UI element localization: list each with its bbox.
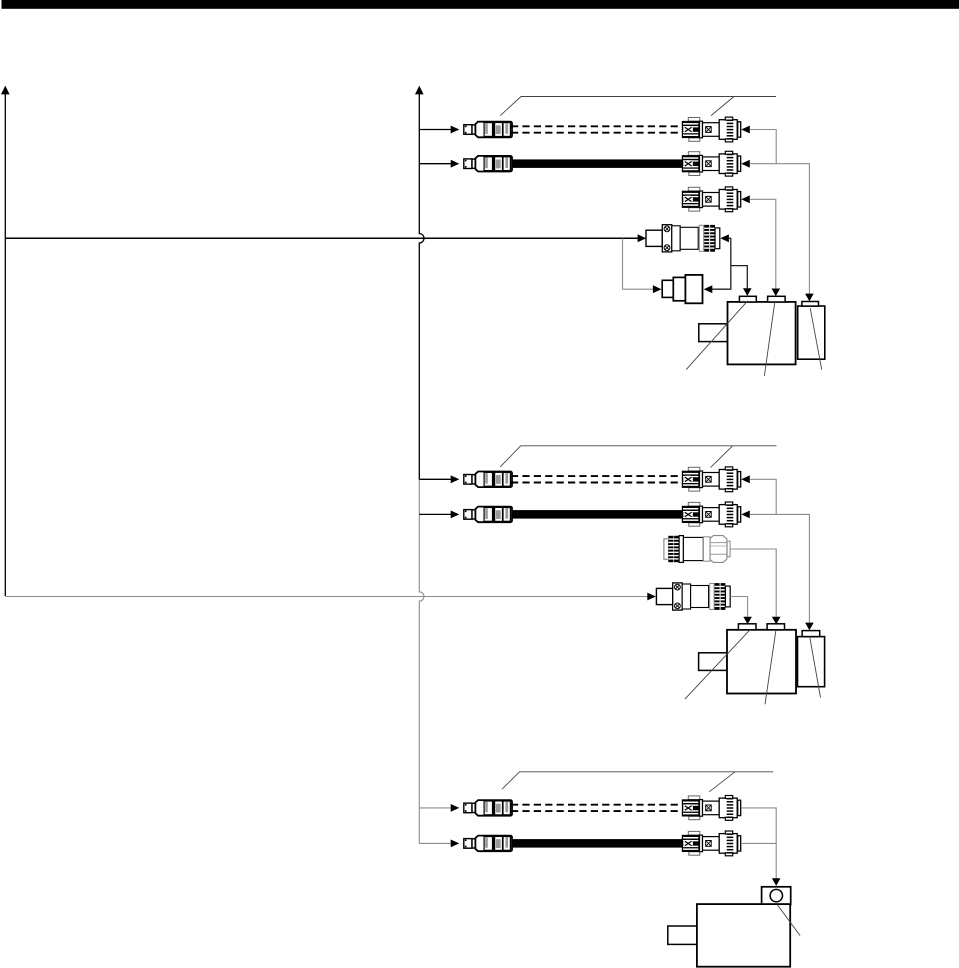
wire: row B to terminal 3	[741, 511, 814, 631]
cable: solid power cable group 3	[512, 839, 682, 848]
callout leader group 2	[500, 446, 776, 468]
motor 2 drawing	[699, 624, 825, 694]
connector round row 3	[682, 187, 741, 212]
cable: solid power cable row 2	[512, 159, 682, 168]
connector plug row B	[464, 507, 512, 523]
connector flange row 4	[646, 225, 720, 252]
connector plug row A	[464, 472, 512, 488]
wire: row 4 to terminal 1 and battery case	[704, 234, 752, 295]
wire: row 2 to encoder box group 3	[741, 843, 781, 886]
leader line motor 3	[777, 905, 800, 936]
connector round row 2	[682, 151, 741, 176]
connector plug row 1	[464, 122, 512, 138]
connector round row A	[682, 467, 741, 492]
connector plug row 2	[464, 156, 512, 172]
encoder connector box motor 3	[762, 887, 791, 905]
cable: solid power cable row B	[512, 510, 682, 518]
header black bar	[2, 0, 959, 9]
motor 3 drawing	[668, 904, 790, 967]
connector round row 1	[682, 117, 741, 142]
wire: row 3 to terminal 2	[741, 195, 780, 296]
connector plug row 2 group 3	[464, 836, 512, 852]
callout leader group 3	[502, 772, 773, 792]
wire: branch to battery-case connector group 1	[623, 238, 662, 293]
wire: branch arrow row 1 group 3	[419, 804, 459, 812]
connector flange row D	[656, 583, 730, 610]
wire: row 2 to terminal 3	[741, 160, 814, 301]
wire: horizontal feed line 1 (to flange connector group 1)	[5, 234, 646, 242]
wire: branch arrow row 2	[419, 160, 459, 168]
connector stepped battery case	[662, 275, 702, 303]
cable: dashed encoder cable row A	[511, 476, 683, 482]
cable: dashed encoder cable group 3	[511, 805, 683, 811]
leader lines motor 2	[685, 630, 821, 705]
wire: branch arrow row 1	[419, 126, 459, 134]
connector round row 2 group 3	[682, 831, 741, 856]
wire: branch arrow row B	[419, 511, 459, 519]
cable: dashed encoder cable row 1	[511, 126, 683, 132]
wire: row D to terminal 1	[730, 597, 752, 625]
connector round row B	[682, 502, 741, 527]
wire: branch arrow row 2 group 3	[419, 840, 459, 848]
wire: row 1 to row 2 join group 3	[741, 808, 776, 844]
callout leader group 1	[500, 97, 776, 116]
wire: row C to terminal 2	[730, 549, 780, 624]
connector plug row 1 group 3	[464, 800, 512, 816]
wire: horizontal feed line 2 (to flange connector group 2)	[5, 593, 656, 601]
wire: center vertical trunk line with up arrow	[415, 86, 424, 844]
motor 1 drawing	[699, 296, 825, 364]
leader lines motor 1	[686, 301, 822, 376]
wire: left vertical trunk line with up arrow	[1, 86, 10, 596]
wire: row 1 to row 2 join	[741, 126, 776, 164]
connector round row 1 group 3	[682, 796, 741, 821]
wire: row A to row B join	[741, 475, 776, 514]
connector inline row C	[664, 536, 730, 563]
wire: branch arrow row A	[419, 475, 459, 483]
